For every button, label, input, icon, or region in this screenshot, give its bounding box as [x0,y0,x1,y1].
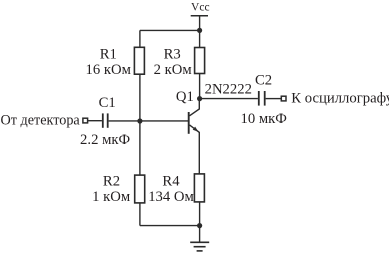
wire emitter to R4 (lead into R4) [198,173,200,175]
resistor R1 [134,47,144,74]
junction dot collector node [197,96,202,101]
svg-text:10 мкФ: 10 мкФ [240,111,287,127]
wire top rail [140,29,200,31]
wire base node to R2 [139,121,141,175]
svg-text:R2: R2 [103,173,120,189]
svg-text:К осциллографу: К осциллографу [291,90,389,106]
svg-text:R1: R1 [100,46,117,62]
resistor R2 [135,175,145,203]
junction dot ground node [197,223,202,228]
output terminal К осциллографу [281,96,286,101]
svg-text:2.2 мкФ: 2.2 мкФ [80,132,130,148]
transistor Q1 [189,99,200,174]
svg-text:134 Ом: 134 Ом [148,189,194,205]
wire R1 bottom lead [139,74,141,121]
svg-text:16 кОм: 16 кОм [85,62,130,78]
resistor R3 [195,48,205,74]
junction dot Vcc node [197,28,202,33]
svg-text:C1: C1 [99,95,116,111]
power terminal Vcc [191,16,208,31]
wire C2 to output terminal [266,98,282,100]
capacitor C1 [103,113,108,127]
svg-text:Vcc: Vcc [191,1,210,13]
wire R3 top lead [199,30,201,47]
wire bottom rail [140,225,200,227]
wire R2 bottom lead [139,203,141,226]
svg-text:2N2222: 2N2222 [205,82,252,98]
wire collector to C2 [200,98,258,100]
wire R4 bottom lead [199,202,201,226]
wire input to C1 [88,120,102,122]
wire C1 to base [109,120,189,122]
svg-text:От детектора: От детектора [1,112,81,128]
wire R3 bottom lead [199,74,201,99]
ground [190,226,209,251]
svg-text:R3: R3 [164,46,181,62]
wire R1 top lead [139,30,141,47]
svg-text:R4: R4 [162,173,180,189]
capacitor C2 [259,91,265,106]
svg-text:2 кОм: 2 кОм [154,62,192,78]
resistor R4 [194,174,204,202]
svg-text:1 кОм: 1 кОм [92,189,130,205]
junction dot base node [137,118,142,123]
svg-text:Q1: Q1 [176,89,194,105]
svg-text:C2: C2 [255,73,272,89]
input terminal От детектора [83,118,88,123]
